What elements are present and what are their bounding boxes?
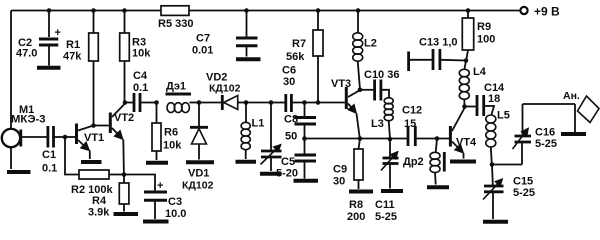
wire top power rail [11,10,521,12]
node C8-C9-wire [302,136,307,141]
capacitor C8 [284,103,316,143]
wire L5 node to C16 [492,164,522,166]
ground under VT4 emitter [450,160,476,164]
svg-text:R4: R4 [92,195,107,207]
svg-text:C8: C8 [284,114,298,126]
svg-text:C5: C5 [281,156,295,168]
svg-text:КД102: КД102 [209,83,241,95]
svg-text:L3: L3 [371,118,384,130]
microphone M1 [2,104,47,169]
trimmer capacitor C15 [483,165,535,220]
svg-text:100: 100 [477,34,495,46]
node VT3 emitter [358,136,363,141]
svg-text:L1: L1 [252,118,265,130]
transistor VT1 [65,124,104,160]
resistor R6 [152,103,182,161]
svg-text:47k: 47k [63,51,82,63]
inductor L1 [241,103,264,160]
svg-text:VT3: VT3 [331,78,351,90]
ground under antenna [561,132,586,136]
ground under Dr2 [427,185,449,189]
svg-text:C7: C7 [196,33,210,45]
ground under L1 [236,160,257,164]
svg-text:R5 330: R5 330 [158,18,193,30]
trimmer capacitor C11 [375,139,399,223]
svg-text:10k: 10k [132,48,151,60]
node VT3 collector [358,88,363,93]
capacitor C1 [42,126,65,175]
svg-text:50: 50 [285,131,297,143]
svg-text:+: + [157,180,163,192]
terminal +9V [520,5,560,19]
node R9-C13-L4 [464,58,469,63]
inductor L4 [459,61,486,107]
inductor L2 [353,11,377,90]
svg-text:C16: C16 [535,127,555,139]
node VT1 collector [91,123,96,128]
choke De1 [166,81,200,113]
node C4-R6-choke [154,100,159,105]
antenna [523,90,600,132]
svg-text:0.1: 0.1 [42,163,57,175]
capacitor C2 [16,11,61,66]
svg-text:56k: 56k [286,51,305,63]
transistor VT2 [94,104,135,175]
wire emitter bus [305,138,408,140]
diode VD2 [199,72,246,111]
resistor R3 [120,11,152,103]
node C8 branch [302,100,307,105]
svg-text:R8: R8 [349,199,363,211]
ground under C11 [381,189,403,193]
node choke-VD1-VD2 [197,100,202,105]
svg-text:C11: C11 [375,199,395,211]
resistor R7 [286,11,323,103]
svg-text:R9: R9 [477,21,491,33]
svg-text:Др2: Др2 [403,156,424,168]
wire VT1 base to R2 [65,137,79,175]
node rail-L2 [356,8,361,13]
node rail-C2 [47,8,52,13]
node C5 branch [269,100,274,105]
svg-text:R1: R1 [66,39,80,51]
node rail-R1 [91,8,96,13]
svg-text:C10 36: C10 36 [364,69,399,81]
node VD2-L1 [244,100,249,105]
svg-text:VT4: VT4 [456,137,477,149]
capacitor C7 [192,11,258,57]
svg-text:10k: 10k [163,140,182,152]
svg-text:+: + [55,27,61,39]
wire L1 to C5 [246,102,271,104]
ground under R6 [146,161,168,165]
capacitor C4 [125,70,157,112]
wire left vertical from rail to microphone [10,11,12,130]
capacitor C12 [402,105,449,147]
node L3-C11 [388,137,393,142]
svg-text:VT1: VT1 [84,132,104,144]
node rail-R7 [316,8,321,13]
svg-text:C6: C6 [282,65,296,77]
capacitor C13 [409,37,466,72]
svg-text:R7: R7 [292,38,306,50]
svg-text:5-25: 5-25 [375,211,397,223]
svg-text:L5: L5 [497,110,510,122]
capacitor C14 [465,82,506,116]
svg-text:VD1: VD1 [188,168,209,180]
ground under C5 [260,172,282,176]
resistor R1 [63,11,98,126]
svg-text:КД102: КД102 [182,180,214,192]
svg-text:15: 15 [404,118,416,130]
svg-text:3.9k: 3.9k [88,207,110,219]
node rail-R3 [122,8,127,13]
svg-text:C15: C15 [513,176,533,188]
ground under C2 [37,66,61,70]
node R2-R4-VT2 emitter [122,172,127,177]
capacitor C6 [271,65,345,113]
svg-text:18: 18 [488,93,500,105]
trimmer capacitor C5 [261,103,299,180]
node C1-VT1 base [63,135,68,140]
svg-text:+9 В: +9 В [534,5,560,19]
choke Dr2 [403,139,444,185]
transistor VT4 [450,108,477,159]
svg-text:C1: C1 [42,149,56,161]
node L5-C15-C16 [490,162,495,167]
svg-text:R6: R6 [164,127,178,139]
ground under C7 [236,57,261,61]
resistor R2 [71,170,124,196]
ground under VD1 [186,160,214,164]
ground under C3 [143,220,169,224]
ground under VT1 emitter [81,160,102,164]
diode VD1 [182,103,214,192]
node VT2 collector / R3 / C4 [123,100,128,105]
capacitor C9 [295,139,348,188]
ground under C15 [483,220,508,224]
capacitor C10 [360,69,399,101]
resistor R8 [347,139,365,224]
svg-text:0.1: 0.1 [133,82,148,94]
ground under R4 [114,212,139,216]
svg-text:10.0: 10.0 [165,208,186,220]
svg-text:200: 200 [347,211,365,223]
svg-text:5-25: 5-25 [513,187,535,199]
svg-text:Дэ1: Дэ1 [166,81,186,93]
svg-text:0.01: 0.01 [192,45,213,57]
transistor VT3 [331,78,361,139]
svg-text:VT2: VT2 [114,112,134,124]
svg-text:C3: C3 [168,196,182,208]
svg-text:C12: C12 [402,105,422,117]
svg-text:47.0: 47.0 [16,48,37,60]
resistor R4 [88,175,129,219]
capacitor C3 [124,175,186,221]
svg-text:C13 1,0: C13 1,0 [419,37,458,49]
node C12-Dr2-VT4 base [435,136,440,141]
node R7 bottom [316,100,321,105]
resistor R5 [158,6,193,30]
svg-text:C9: C9 [333,164,347,176]
svg-text:C4: C4 [133,70,148,82]
svg-text:L4: L4 [473,66,487,78]
resistor R9 [462,11,495,61]
svg-text:Ан.: Ан. [563,90,580,102]
node rail-C7 [244,8,249,13]
ground under microphone [7,170,31,174]
inductor L3 [371,98,393,139]
svg-text:5-25: 5-25 [535,138,557,150]
node rail-R9 [466,8,471,13]
ground under R8 [349,190,373,194]
svg-text:L2: L2 [364,38,377,50]
trimmer capacitor C16 [513,104,558,165]
svg-text:МКЭ-3: МКЭ-3 [11,114,46,126]
ground under C9 [294,179,319,183]
svg-text:30: 30 [283,76,295,88]
node VT4 collector-L4-C14 [462,104,467,109]
inductor L5 [486,110,510,165]
svg-text:30: 30 [333,176,345,188]
